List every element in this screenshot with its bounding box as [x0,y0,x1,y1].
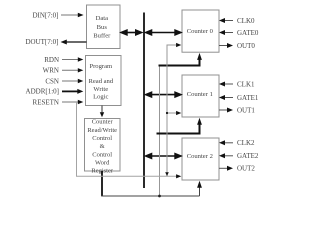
svg-text:WRN: WRN [43,67,59,75]
svg-text:CLK2: CLK2 [237,139,255,147]
svg-text:Counter 1: Counter 1 [187,91,213,98]
svg-text:OUT0: OUT0 [237,42,255,50]
svg-text:GATE1: GATE1 [237,94,259,102]
svg-text:OUT1: OUT1 [237,106,255,114]
svg-text:&: & [100,143,105,150]
svg-text:Control: Control [92,151,112,158]
svg-text:RDN: RDN [44,56,59,64]
svg-text:Counter: Counter [92,119,114,126]
svg-text:Program: Program [89,63,113,70]
svg-text:Buffer: Buffer [93,33,111,40]
svg-text:CSN: CSN [45,77,59,85]
svg-text:DIN[7:0]: DIN[7:0] [32,11,58,19]
svg-text:Counter 2: Counter 2 [187,153,213,160]
svg-text:DOUT[7:0]: DOUT[7:0] [25,38,58,46]
svg-text:Data: Data [96,15,109,22]
svg-text:RESETN: RESETN [33,98,59,106]
svg-text:Control: Control [92,135,112,142]
svg-text:Logic: Logic [93,94,108,101]
svg-text:GATE2: GATE2 [237,152,259,160]
svg-text:Read and: Read and [88,78,113,85]
svg-text:ADDR[1:0]: ADDR[1:0] [26,88,59,96]
svg-text:Counter 0: Counter 0 [187,28,214,35]
svg-text:Bus: Bus [97,24,108,31]
svg-text:OUT2: OUT2 [237,165,255,173]
svg-text:Read/Write: Read/Write [87,127,117,134]
svg-text:Write: Write [93,86,108,93]
svg-text:Word: Word [95,160,110,167]
svg-text:CLK1: CLK1 [237,80,255,88]
svg-text:CLK0: CLK0 [237,17,255,25]
svg-text:GATE0: GATE0 [237,29,259,37]
